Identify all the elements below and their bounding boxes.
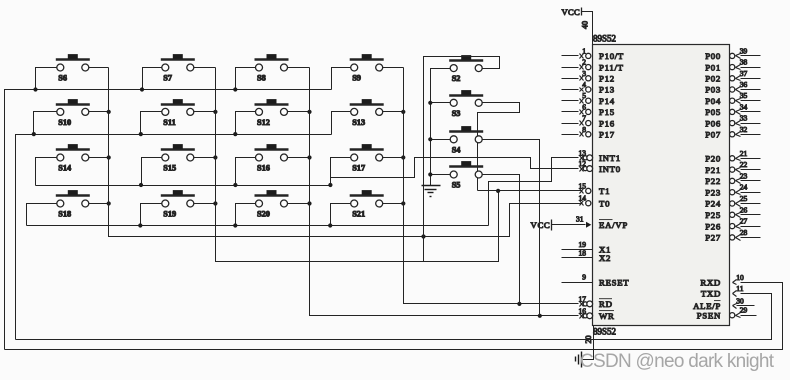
pin 19 X1 left [562,249,593,251]
svg-text:S6: S6 [58,74,67,83]
svg-text:3: 3 [582,69,586,78]
svg-text:P21: P21 [705,165,721,175]
svg-text:S15: S15 [163,164,176,173]
svg-text:38: 38 [740,58,748,67]
svg-text:P03: P03 [705,85,721,95]
switch S6 [56,54,90,82]
pin 14 T0 left [580,201,584,206]
svg-text:S2: S2 [452,74,461,83]
svg-text:S18: S18 [58,210,71,219]
wire [89,157,109,159]
svg-text:39: 39 [740,46,748,55]
svg-text:30: 30 [736,296,744,305]
wire column1 net [109,68,583,237]
pin 2 P11/T left [562,67,579,69]
wire [288,157,310,159]
svg-text:P22: P22 [705,176,721,186]
switch S3 [449,90,483,118]
pin 22 P21 right [730,167,735,172]
svg-text:P02: P02 [705,74,721,84]
pin 15 T1 left [580,189,584,194]
wire [89,67,109,69]
switch S10 [56,99,90,127]
svg-text:P05: P05 [705,107,721,117]
svg-text:S12: S12 [257,118,270,127]
svg-text:PSEN: PSEN [697,310,721,320]
pin 21 P20 right [730,156,735,161]
svg-text:2: 2 [582,58,586,67]
wire T1 line [478,190,583,192]
svg-text:INT0: INT0 [599,164,621,174]
junction col3/S4 on WR line [538,314,542,318]
wire row2 net [16,135,332,340]
pin 39 P00 right [730,53,735,58]
switch S8 [255,54,289,82]
junction row4/S21 [328,223,332,227]
pin 33 P06 right [730,121,735,126]
wire [236,204,256,226]
svg-text:P26: P26 [705,221,721,231]
junction row3/S15 [139,183,143,187]
junction col4/S13 [401,110,405,114]
wire [34,112,57,135]
wire S2 right wrap over top [424,57,500,262]
svg-text:TXD: TXD [701,289,721,299]
svg-text:89S52: 89S52 [593,327,616,337]
svg-text:34: 34 [740,102,748,111]
svg-text:S16: S16 [257,164,270,173]
wire [288,67,310,69]
junction row1/S7 [140,87,144,91]
svg-text:P27: P27 [705,233,721,243]
svg-text:S14: S14 [58,164,71,173]
pin 28 P27 right [730,235,735,240]
svg-text:T1: T1 [599,186,610,196]
svg-text:P13: P13 [599,85,615,95]
wire column4 net [404,68,579,304]
wire S5 right to RD [483,175,520,304]
ground [422,186,441,197]
junction row2/S11 [139,132,143,136]
wire [194,67,216,69]
svg-text:18: 18 [579,248,587,257]
svg-text:X2: X2 [599,253,611,263]
junction row1/S6 [33,87,37,91]
svg-text:33: 33 [740,114,748,123]
svg-text:37: 37 [740,69,748,78]
switch S16 [255,144,289,172]
svg-text:S20: S20 [257,210,270,219]
wire [236,68,256,90]
svg-text:P11/T: P11/T [599,62,624,72]
junction col2/S11 [213,110,217,114]
wire [332,112,351,135]
svg-text:T0: T0 [599,198,610,208]
junction col2/S15 [213,155,217,159]
svg-text:RD: RD [599,299,613,309]
svg-text:20: 20 [584,336,593,344]
pin 1 P10/T left [562,55,579,57]
junction col1/S2wrap [421,234,425,238]
pin 23 P22 right [730,178,735,183]
switch S9 [350,54,384,82]
pin 12 INT0 left [580,167,584,172]
junction row1/S8 [233,87,237,91]
svg-text:22: 22 [740,160,748,169]
svg-text:26: 26 [740,205,748,214]
svg-text:S3: S3 [452,109,461,118]
svg-text:P00: P00 [705,51,721,61]
svg-text:VCC: VCC [562,7,581,17]
svg-text:40: 40 [581,21,590,29]
wire [236,158,256,186]
pin 25 P24 right [730,201,735,206]
svg-text:24: 24 [740,183,748,192]
svg-text:10: 10 [736,273,744,282]
pin 8 P17 left [562,134,579,136]
pin 36 P03 right [730,87,735,92]
svg-text:P12: P12 [599,74,615,84]
svg-text:28: 28 [740,228,748,237]
svg-text:S4: S4 [452,145,461,154]
wire column3 net [310,68,579,316]
svg-text:P04: P04 [705,96,721,106]
wire [89,111,109,113]
junction row2/S12 [233,132,237,136]
svg-text:S17: S17 [352,164,365,173]
svg-text:31: 31 [576,215,584,224]
pin 18 X2 left [562,257,593,259]
svg-text:P14: P14 [599,96,615,106]
svg-text:VCC: VCC [531,220,551,230]
svg-text:S5: S5 [452,181,461,190]
svg-text:P20: P20 [705,154,721,164]
wire S5 left stub to ground column [431,174,451,176]
svg-text:S21: S21 [352,210,365,219]
svg-text:8: 8 [582,125,586,134]
wire [142,158,162,186]
junction row4/S20 [233,223,237,227]
pin 13 INT1 left [580,156,584,161]
junction ground/S5 [428,172,432,176]
pin 37 P02 right [730,76,735,81]
IC U1 89S52 body [593,45,730,326]
wire S2 left to ground column [431,69,451,186]
pin 35 P04 right [730,98,735,103]
switch S11 [161,99,195,127]
svg-text:23: 23 [740,171,748,180]
svg-text:S10: S10 [58,118,71,127]
pin 11 TXD right [733,291,737,294]
junction col3/S16 [307,155,311,159]
svg-text:21: 21 [740,149,748,158]
svg-text:29: 29 [740,306,748,315]
wire [194,111,216,113]
wire column2 net [216,68,499,262]
wire [143,68,162,90]
svg-text:5: 5 [582,91,586,100]
ground at pin 20 (rotated) [576,352,582,368]
wire S4 right to WR [483,140,540,316]
svg-text:27: 27 [740,217,748,226]
switch S14 [56,144,90,172]
wire row2 wrap to TXD [16,294,772,340]
wire [194,203,216,205]
svg-text:15: 15 [579,181,587,190]
wire [383,111,404,113]
svg-text:P24: P24 [705,199,721,209]
switch S19 [161,190,195,218]
pin 7 P16 left [562,123,579,125]
wire row3 net [36,185,331,187]
svg-text:17: 17 [579,294,587,303]
svg-text:P06: P06 [705,118,721,128]
svg-text:RXD: RXD [700,278,721,288]
svg-text:P01: P01 [705,62,721,72]
wire S3 right jog down to S4 [478,103,520,191]
switch S2 [449,55,483,83]
wire [383,67,404,69]
pin 32 P07 right [730,132,735,137]
wire [141,204,162,226]
svg-text:P10/T: P10/T [599,51,624,61]
svg-text:P25: P25 [705,210,721,220]
junction col4/S21 [401,201,405,205]
junction ground/S3 [428,101,432,105]
wire row4 to INT1 [489,158,579,226]
wire row4 net [27,225,489,227]
svg-text:4: 4 [582,80,586,89]
svg-text:S8: S8 [257,74,266,83]
junction col1/S14 [107,155,111,159]
wire [89,203,109,205]
svg-text:P07: P07 [705,130,721,140]
switch S4 [449,126,483,154]
svg-text:S7: S7 [163,74,172,83]
svg-text:S9: S9 [352,74,361,83]
svg-text:13: 13 [579,148,587,157]
switch S7 [161,54,195,82]
junction col2/S19 [213,201,217,205]
svg-text:P23: P23 [705,187,721,197]
svg-text:9: 9 [582,273,586,282]
wire [331,204,351,226]
junction ground/S4 [428,137,432,141]
switch S13 [350,99,384,127]
pin 9 RESET left [562,282,593,284]
wire [332,68,351,90]
svg-text:25: 25 [740,194,748,203]
switch S17 [350,144,384,172]
svg-text:CSDN @neo dark knight: CSDN @neo dark knight [580,351,775,372]
switch S20 [255,190,289,218]
wire pin20 to ground [582,326,594,360]
svg-text:35: 35 [740,91,748,100]
pin 17 RD left [580,302,584,307]
pin 3 P12 left [562,78,579,80]
wire [27,204,57,226]
junction S4 right [475,138,479,142]
svg-text:S11: S11 [163,118,175,127]
svg-text:EA/VP: EA/VP [599,220,628,230]
svg-text:7: 7 [582,114,586,123]
pin 38 P01 right [730,65,735,70]
pin 10 RXD right [733,280,737,283]
switch S15 [161,144,195,172]
junction col4/S17 [401,155,405,159]
junction col3/S20 [307,201,311,205]
pin 24 P23 right [730,190,735,195]
svg-text:12: 12 [579,159,587,168]
pin 4 P13 left [562,89,579,91]
svg-text:11: 11 [736,284,743,293]
pin 30 ALE/P right [733,304,737,306]
switch S18 [56,190,90,218]
svg-text:6: 6 [582,102,586,111]
switch S12 [255,99,289,127]
svg-text:S13: S13 [352,118,365,127]
junction col3/S12 [307,110,311,114]
pin 27 P26 right [730,224,735,229]
wire [288,111,310,113]
svg-text:S19: S19 [163,210,176,219]
svg-text:P16: P16 [599,118,615,128]
wire row1 wrap to RXD [5,283,783,350]
junction row2/S10 [32,132,36,136]
pin 34 P05 right [730,109,735,114]
svg-text:89S52: 89S52 [593,34,616,44]
pin 5 P14 left [562,100,579,102]
switch S5 [449,161,483,189]
svg-text:32: 32 [740,125,748,134]
wire [288,203,310,205]
wire [383,203,404,205]
pin 29 PSEN right [730,313,735,318]
junction col1/S18 [107,201,111,205]
junction col4/S5 on RD line [517,302,521,306]
wire [141,112,162,135]
svg-text:WR: WR [599,311,615,321]
junction row3/S17 [328,183,332,187]
svg-text:16: 16 [579,306,587,315]
wire [36,68,57,90]
pin 16 WR left [580,314,584,319]
wire [36,158,57,186]
junction S5 right [475,173,479,177]
junction row3/S16 [233,183,237,187]
svg-text:P15: P15 [599,107,615,117]
wire S3 left stub to ground column [431,102,451,104]
wire row3 to INT0 [331,158,579,178]
svg-text:P17: P17 [599,130,615,140]
switch S21 [350,190,384,218]
wire row1 net [5,90,332,350]
svg-text:1: 1 [582,46,586,55]
pin 6 P15 left [562,111,579,113]
svg-text:RESET: RESET [599,277,629,287]
svg-text:36: 36 [740,80,748,89]
junction col1/S10 [107,110,111,114]
svg-text:14: 14 [579,194,587,203]
wire [331,158,351,186]
wire [383,157,404,159]
junction T1/col2 [496,189,500,193]
wire [194,157,216,159]
wire [236,112,256,135]
pin 26 P25 right [730,212,735,217]
wire S4 left stub to ground column [431,139,451,141]
junction row4/S19 [138,223,142,227]
svg-text:INT1: INT1 [599,153,621,163]
